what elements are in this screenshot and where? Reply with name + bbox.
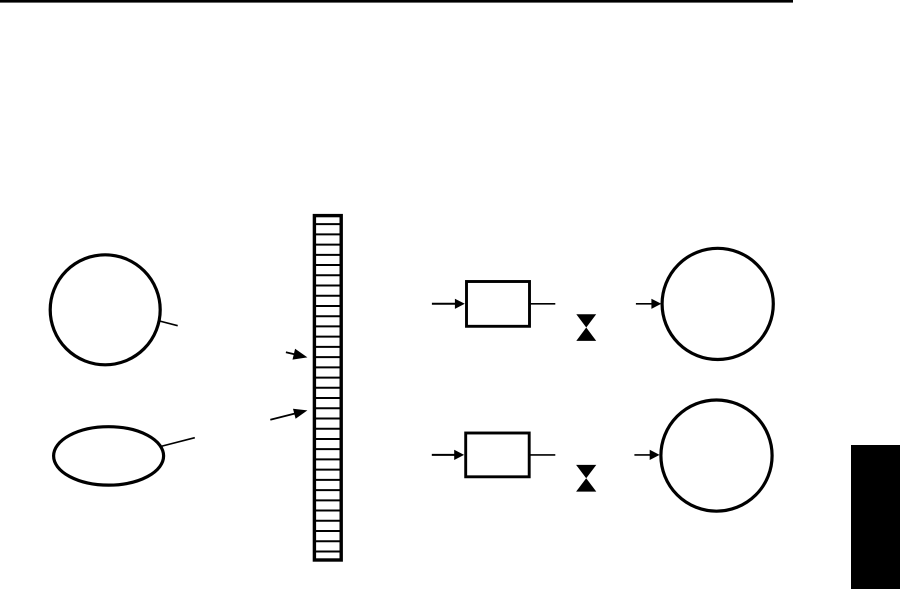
arrow into upper right circle <box>636 299 661 309</box>
lower hourglass <box>576 465 596 492</box>
lower box <box>466 433 530 477</box>
lower arrow into plate <box>270 409 307 420</box>
arrow into lower box <box>432 450 464 460</box>
striped plate rungs <box>314 224 341 551</box>
upper arrow into plate <box>286 349 308 360</box>
tick line on left circle <box>160 321 178 326</box>
upper right circle <box>662 248 773 359</box>
striped plate (ladder) border <box>314 216 341 560</box>
lower right circle <box>661 400 772 511</box>
left ellipse (lower source) <box>54 427 164 485</box>
upper hourglass <box>576 314 596 341</box>
black corner rectangle <box>851 445 900 589</box>
output line of lower box <box>530 454 555 456</box>
upper box <box>467 282 530 327</box>
arrow into lower right circle <box>634 450 659 460</box>
tick line on left ellipse <box>161 438 195 447</box>
left circle (upper source) <box>50 255 160 365</box>
top rule <box>0 0 793 3</box>
arrow into upper box <box>432 299 465 309</box>
output line of upper box <box>531 303 556 305</box>
